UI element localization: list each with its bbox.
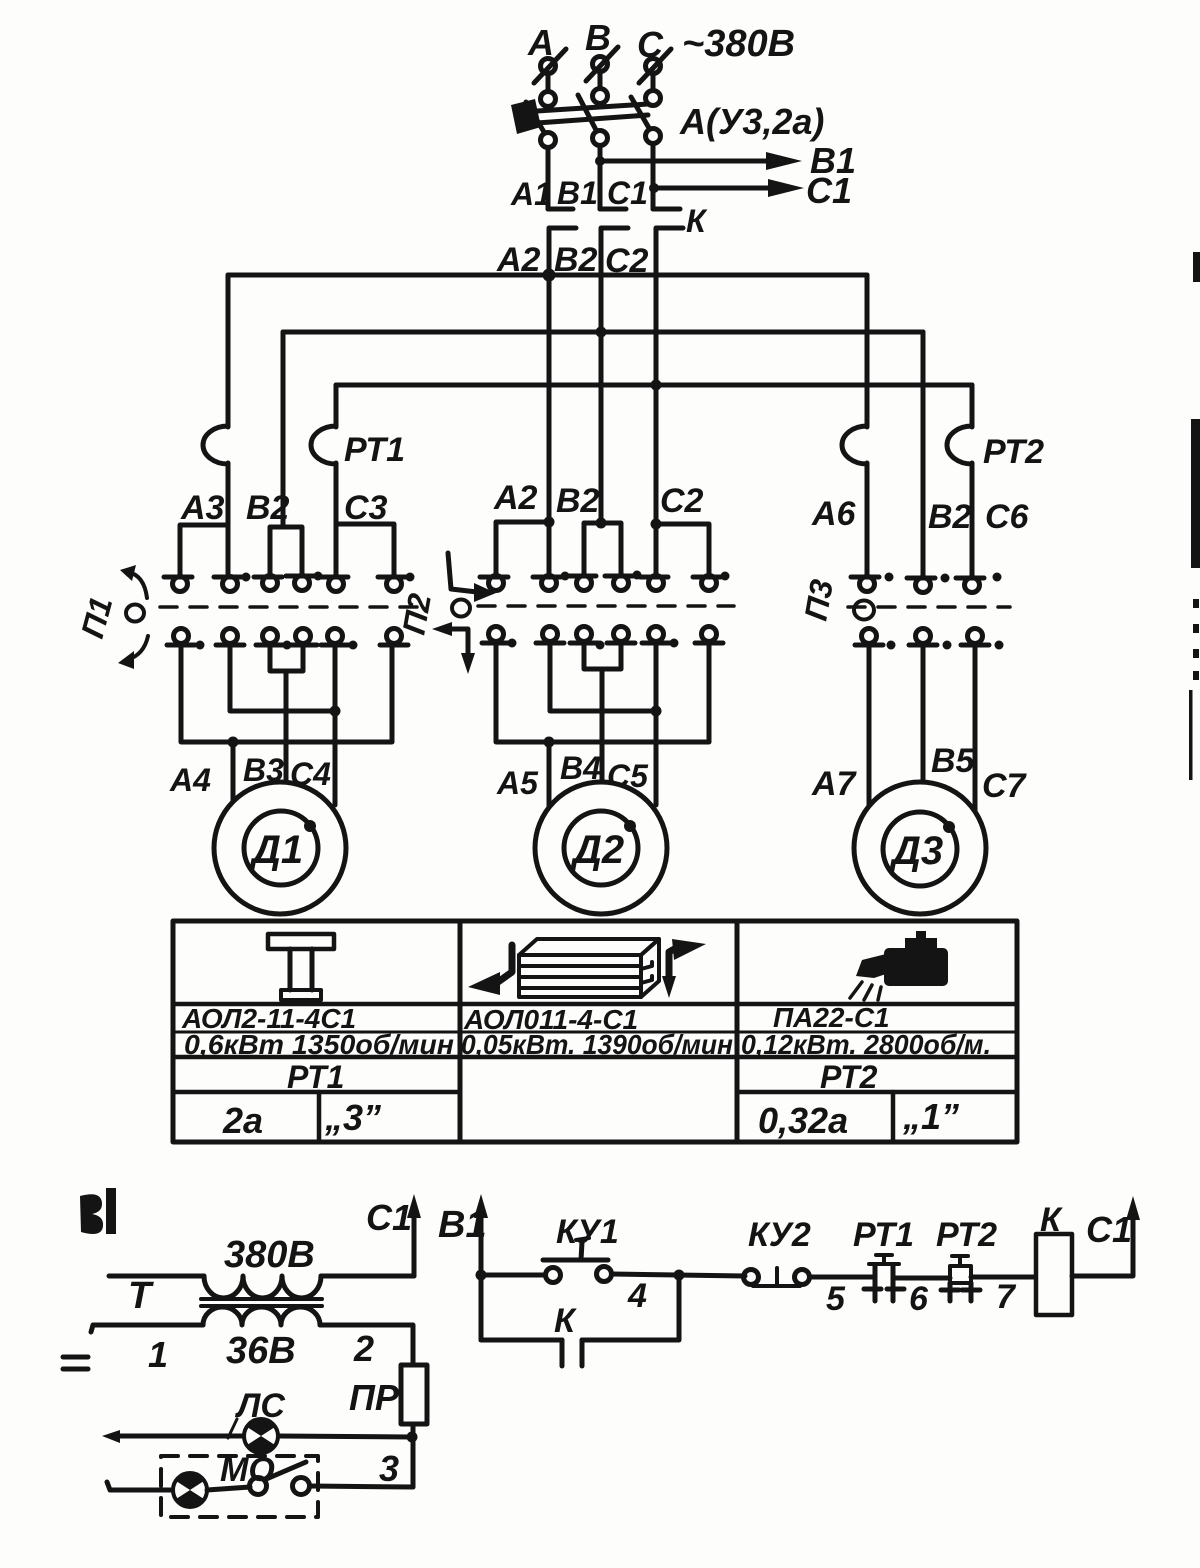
local light dashed box	[161, 1456, 318, 1517]
table row line under relay names right	[737, 1090, 1017, 1095]
wire into MO box	[107, 1482, 173, 1490]
table column divider 1	[458, 921, 463, 1142]
link pin2 to pin5	[230, 644, 336, 711]
motor D2	[535, 782, 667, 914]
svg-text:П2: П2	[395, 591, 438, 638]
svg-text:7: 7	[996, 1278, 1017, 1316]
svg-text:„3”: „3”	[324, 1097, 381, 1138]
disconnect switch pole C	[631, 49, 671, 144]
switch operating bar	[511, 99, 648, 134]
bus phase C	[336, 383, 972, 388]
connector P3 marker zero	[854, 601, 874, 620]
switch MO	[207, 1462, 413, 1495]
node C1 tap with arrow	[649, 179, 804, 197]
icon magazine box	[519, 939, 659, 997]
svg-text:С7: С7	[982, 767, 1028, 805]
svg-text:С3: С3	[344, 489, 388, 527]
wire	[226, 463, 231, 576]
connector P1 upper pins	[164, 572, 415, 592]
feeder wire C3 from bus	[334, 385, 339, 427]
icon left feed arrow	[468, 945, 512, 995]
svg-text:С6: С6	[985, 498, 1030, 536]
bridge B2 to pins 3-4	[270, 527, 302, 576]
wire	[970, 463, 975, 577]
feeder wire A3 from bus to P1	[226, 275, 231, 427]
icon water tap	[856, 931, 948, 986]
svg-text:КУ1: КУ1	[556, 1213, 619, 1251]
motor D3	[854, 782, 986, 914]
svg-text:С1: С1	[806, 170, 852, 211]
svg-text:Д3: Д3	[889, 829, 943, 873]
connector P3 lower pins	[855, 629, 1004, 650]
wire	[865, 463, 870, 577]
svg-text:3: 3	[379, 1448, 399, 1489]
junction B2 on bus	[596, 327, 607, 338]
transformer secondary wire left	[91, 1325, 203, 1332]
disconnect switch pole B	[578, 47, 618, 146]
motor lead bridge pins 3-4	[270, 644, 303, 671]
fuse PR	[401, 1365, 427, 1424]
thermal heater RT1 phase C	[311, 426, 336, 464]
svg-text:С2: С2	[660, 482, 704, 520]
table row line under icons	[173, 1002, 1017, 1007]
transformer T primary winding	[204, 1276, 321, 1298]
motor lead wire B5	[921, 644, 926, 790]
svg-text:К: К	[554, 1302, 577, 1340]
svg-text:0,6кВт 1350об/мин: 0,6кВт 1350об/мин	[184, 1029, 454, 1060]
bridge B2 to pins 3-4	[584, 523, 621, 576]
motor lead wire C7	[973, 644, 978, 810]
icon right feed arrow	[662, 939, 706, 998]
connector P3 upper pins	[851, 573, 1002, 593]
junction	[544, 517, 555, 528]
svg-text:А1: А1	[510, 176, 552, 212]
thermal heater RT2 phase C	[947, 426, 972, 464]
svg-text:В5: В5	[931, 742, 976, 780]
svg-text:1: 1	[148, 1334, 168, 1375]
svg-text:К: К	[1040, 1201, 1063, 1239]
arrow up to B1	[474, 1194, 488, 1340]
stop button KU2	[744, 1268, 810, 1286]
svg-text:А7: А7	[811, 765, 858, 803]
connector P1 lower pins	[167, 629, 408, 650]
svg-text:В2: В2	[556, 482, 600, 520]
wire pole C to contactor	[651, 144, 656, 209]
svg-text:380В: 380В	[224, 1234, 315, 1276]
junction	[544, 737, 555, 748]
arrow up to C1	[1126, 1196, 1140, 1220]
transformer T primary wire right	[321, 1274, 414, 1279]
scan mark top left	[80, 1188, 116, 1234]
link pin1 to pin6	[496, 642, 709, 742]
connector P3 mating dashed line	[848, 605, 1010, 609]
bridge A2 to pin 1	[496, 522, 549, 576]
junction	[228, 737, 239, 748]
svg-text:А4: А4	[169, 762, 211, 798]
connector P2 mating dashed line	[478, 604, 734, 608]
svg-text:А5: А5	[496, 765, 539, 801]
lamp LS wire	[102, 1430, 411, 1443]
motor D1	[214, 782, 346, 914]
connector P1 marker arrow lower	[118, 636, 148, 669]
svg-text:П1: П1	[74, 593, 119, 642]
svg-text:В: В	[585, 17, 611, 58]
wire RT1 to RT2	[893, 1276, 950, 1281]
disconnect switch pole A	[526, 49, 566, 148]
wire coil to C1	[1072, 1214, 1133, 1276]
svg-text:Д2: Д2	[570, 828, 624, 872]
table row line under relay names left	[173, 1090, 460, 1095]
page edge artifacts	[1189, 252, 1200, 780]
transformer T primary wire left	[109, 1274, 204, 1279]
transformer secondary winding	[203, 1307, 320, 1325]
svg-text:2а: 2а	[222, 1100, 263, 1141]
svg-text:0,12кВт. 2800об/м.: 0,12кВт. 2800об/м.	[741, 1029, 991, 1060]
label leader line	[228, 1419, 237, 1438]
svg-text:РТ1: РТ1	[344, 431, 405, 469]
svg-text:0,05кВт. 1390об/мин: 0,05кВт. 1390об/мин	[461, 1029, 733, 1060]
motor lead wire C5 from pin5	[654, 642, 659, 805]
lamp LS	[244, 1419, 278, 1453]
wire pole A to contactor	[546, 148, 551, 209]
svg-text:„1”: „1”	[902, 1096, 959, 1137]
svg-text:~380В: ~380В	[682, 23, 795, 65]
wire	[334, 463, 339, 576]
contactor coil K	[1036, 1234, 1072, 1315]
node B1 tap with arrow	[595, 152, 802, 170]
icon press spool stem	[288, 949, 293, 990]
contactor K pole B	[600, 209, 628, 332]
link pin1 to pin6	[181, 644, 392, 742]
connector P1 mating dashed line	[160, 605, 424, 609]
junction	[596, 518, 607, 529]
wire RT2 to coil	[971, 1275, 1036, 1280]
svg-text:В2: В2	[928, 498, 972, 536]
svg-text:6: 6	[909, 1280, 929, 1318]
svg-text:К: К	[686, 203, 708, 239]
equals mark	[63, 1357, 88, 1369]
svg-text:36В: 36В	[226, 1330, 296, 1372]
svg-text:А6: А6	[811, 495, 857, 533]
svg-text:2: 2	[353, 1328, 374, 1369]
icon press spool top flange	[268, 934, 334, 949]
svg-text:РТ2: РТ2	[936, 1216, 997, 1254]
bridge C2 to pin 6	[656, 524, 709, 576]
junction C2 on bus	[651, 380, 662, 391]
bus phase A	[228, 273, 867, 278]
K auxiliary contact branch	[481, 1275, 679, 1366]
RT1 break contact	[864, 1255, 904, 1301]
svg-text:Д1: Д1	[249, 828, 303, 872]
transformer core	[201, 1297, 322, 1301]
motor lead bridge pins 3-4	[584, 642, 621, 669]
svg-text:С1: С1	[366, 1197, 412, 1238]
svg-text:А2: А2	[493, 479, 538, 517]
contactor K pole A	[548, 209, 576, 275]
svg-text:Т: Т	[128, 1275, 154, 1317]
feeder wire C6 from bus	[970, 385, 975, 427]
feeder wire B2 from bus to P1	[281, 332, 286, 527]
wire KU1 to node 4	[612, 1274, 745, 1276]
lamp MO	[173, 1473, 207, 1507]
thermal heater RT2 phase A	[842, 426, 867, 464]
motor lead wire B3	[284, 671, 289, 790]
icon press spool base	[281, 990, 321, 1000]
svg-text:РТ1: РТ1	[853, 1216, 914, 1254]
wire fuse to node 3	[411, 1424, 416, 1487]
connector P2 marker arrow upper	[448, 553, 496, 602]
RT2 break contact	[941, 1256, 980, 1301]
table column divider 2	[735, 921, 740, 1142]
junction A2 on bus	[543, 269, 556, 282]
svg-text:В1: В1	[557, 175, 598, 211]
arrow up to C1	[407, 1194, 421, 1276]
feeder wire C2 to P2	[654, 385, 659, 576]
junction	[330, 706, 341, 717]
feeder wire A6 from bus	[865, 275, 870, 427]
motor lead wire B4	[600, 669, 605, 790]
junction	[651, 519, 662, 530]
table row line under ratings	[173, 1055, 1017, 1060]
junction node 4	[674, 1270, 685, 1281]
table frame	[173, 921, 1017, 1142]
svg-text:С1: С1	[1086, 1209, 1132, 1250]
wire to KU1	[481, 1273, 545, 1278]
motor lead wire A7	[867, 644, 872, 812]
svg-text:0,32а: 0,32а	[758, 1100, 848, 1141]
bridge A3 to pins 1-2	[180, 525, 228, 576]
motor lead wire A4	[231, 742, 236, 808]
feeder wire A2 contactor to P2	[547, 275, 552, 576]
wire pole B to contactor	[598, 146, 603, 209]
svg-text:П3: П3	[797, 577, 840, 624]
svg-text:ЛС: ЛС	[234, 1387, 285, 1425]
svg-text:А3: А3	[180, 489, 225, 527]
svg-text:РТ1: РТ1	[287, 1059, 344, 1095]
svg-text:КУ2: КУ2	[748, 1216, 811, 1254]
feeder wire B2 to P2	[599, 332, 604, 523]
motor lead wire A5	[547, 742, 552, 808]
contactor K pole C	[653, 209, 683, 385]
wire KU2 to RT1	[810, 1275, 875, 1280]
table cell divider col1 values	[317, 1092, 322, 1142]
svg-text:ПР: ПР	[349, 1377, 400, 1418]
transformer secondary wire right	[320, 1325, 413, 1365]
junction	[651, 706, 662, 717]
svg-text:РТ2: РТ2	[820, 1059, 878, 1095]
table cell divider col3 values	[891, 1092, 896, 1142]
svg-text:А(У3,2а): А(У3,2а)	[679, 101, 824, 142]
motor lead wire C4 from pin5	[333, 644, 338, 805]
svg-text:4: 4	[627, 1277, 647, 1315]
table row line under model names	[173, 1031, 1017, 1034]
connector P2 marker zero	[452, 600, 470, 617]
connector P2 lower pins	[482, 627, 723, 650]
link pin2 to pin5	[550, 642, 656, 711]
junction	[476, 1270, 487, 1281]
thermal heater RT1 phase A	[203, 426, 228, 464]
svg-text:С1: С1	[607, 175, 648, 211]
connector P2 marker arrow lower	[432, 622, 475, 674]
junction	[407, 1432, 418, 1443]
svg-text:РТ2: РТ2	[983, 433, 1044, 471]
feeder wire B2 from bus	[921, 332, 926, 577]
connector P2 upper pins	[480, 571, 730, 591]
connector P1 marker arrow upper	[120, 565, 147, 598]
svg-text:5: 5	[826, 1280, 846, 1318]
bus phase B	[283, 330, 923, 335]
connector P1 marker zero	[126, 605, 144, 622]
start button KU1	[543, 1238, 612, 1283]
bridge C3 to pin 6	[336, 524, 394, 576]
